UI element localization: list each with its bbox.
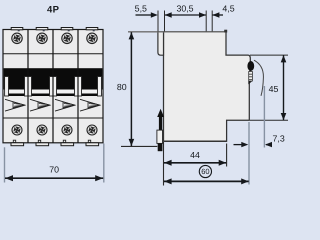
dimension 70 <box>5 144 104 183</box>
tab pole1 <box>11 28 23 32</box>
brand triangle logos <box>5 99 100 111</box>
logo pole4 <box>80 99 100 111</box>
DIN clip striped latch <box>249 72 253 82</box>
clip slider white <box>157 130 163 143</box>
bottom terminal screws <box>12 125 97 135</box>
toggle window black band <box>4 68 103 89</box>
svg-text:80: 80 <box>117 82 127 92</box>
screw 7 <box>62 125 72 135</box>
horizontal line under top screws <box>3 53 103 55</box>
DIN clip black blob <box>247 61 254 71</box>
svg-text:60: 60 <box>201 167 209 176</box>
white strip under band <box>4 90 103 94</box>
svg-text:4,5: 4,5 <box>222 4 234 14</box>
svg-text:44: 44 <box>190 150 200 160</box>
screw 5 <box>12 125 22 135</box>
dim 60 circled <box>164 180 249 182</box>
lever edge pole4 <box>98 77 102 97</box>
knob top right corner <box>224 30 227 33</box>
dim line 70 <box>5 177 103 179</box>
logo pole2 <box>30 99 50 111</box>
side body bottom edge emphasize <box>164 140 227 142</box>
lever pole1/2 <box>25 77 32 97</box>
side body <box>164 32 251 141</box>
clip shaft <box>159 116 162 130</box>
horizontal line above bottom screws <box>3 117 103 119</box>
svg-text:7,3: 7,3 <box>273 134 285 144</box>
lever edge pole1 <box>5 77 9 97</box>
lever pole2/3 <box>50 77 57 97</box>
svg-text:45: 45 <box>269 84 279 94</box>
bottom front clip: black up arrow <box>157 109 164 117</box>
screw 6 <box>37 125 47 135</box>
lower black band segments <box>9 94 98 97</box>
screw 2 <box>37 33 47 43</box>
arrow left of 70 <box>5 175 13 181</box>
pole divider lines <box>28 30 78 143</box>
top edge gray line <box>128 31 226 33</box>
svg-text:30,5: 30,5 <box>176 3 193 13</box>
top terminal screws <box>12 33 97 43</box>
screw 4 <box>87 33 97 43</box>
logo pole3 <box>55 99 75 111</box>
bottom protrusions <box>11 143 99 146</box>
tab pole3 <box>61 28 73 32</box>
svg-text:5,5: 5,5 <box>135 4 147 14</box>
screw 1 <box>12 33 22 43</box>
screw 3 <box>62 33 72 43</box>
screw 8 <box>87 125 97 135</box>
extension line left <box>4 147 6 182</box>
clip foot black <box>158 143 163 151</box>
lever pole3/4 <box>75 77 82 97</box>
clip swing arc <box>254 60 263 96</box>
tab pole4 <box>86 28 98 32</box>
logo pole1 <box>5 99 25 111</box>
svg-text:4P: 4P <box>47 4 60 15</box>
svg-text:70: 70 <box>49 164 59 174</box>
extension line right <box>103 144 105 183</box>
toggle levers (white gaps) <box>5 77 102 97</box>
bottom small squares <box>13 140 90 142</box>
toggle lever side <box>158 32 164 55</box>
breaker body front view <box>3 30 103 143</box>
arrow right of 70 <box>95 175 103 181</box>
top tabs <box>11 28 98 32</box>
tab pole2 <box>36 28 48 32</box>
